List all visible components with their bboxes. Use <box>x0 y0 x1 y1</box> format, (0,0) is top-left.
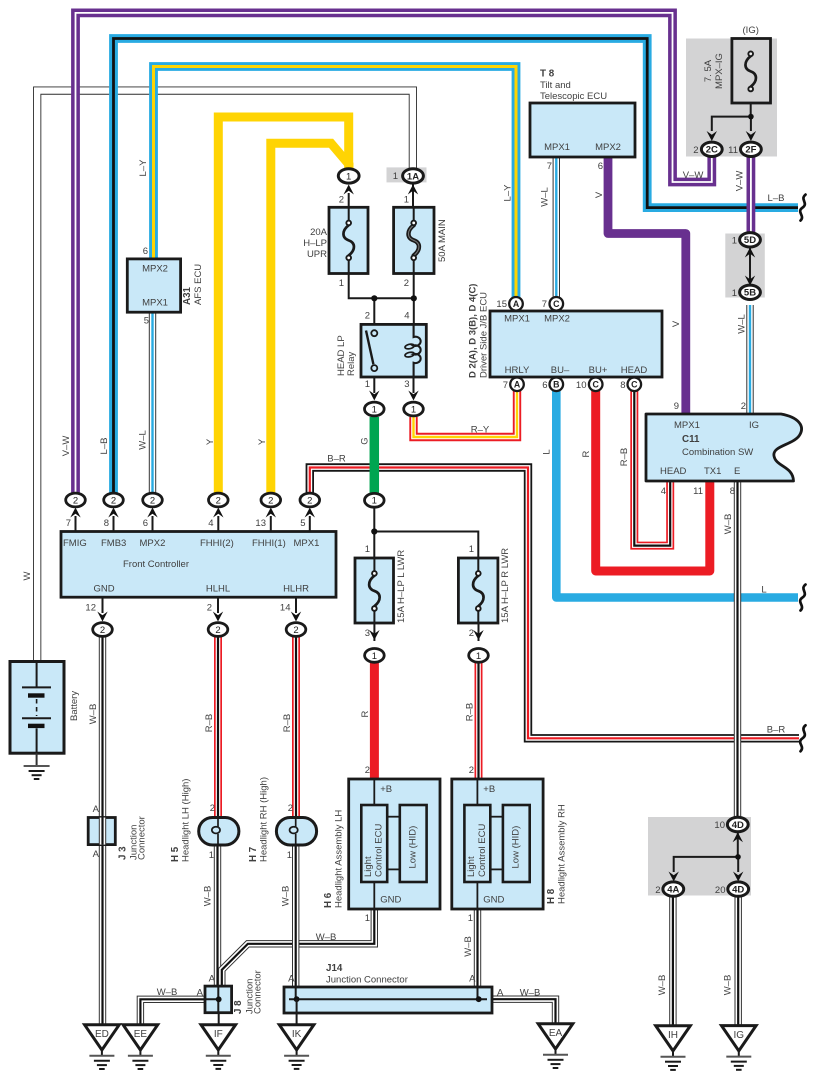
svg-text:11: 11 <box>693 486 703 497</box>
svg-text:Junction Connector: Junction Connector <box>326 975 408 986</box>
junction dot relay feed right <box>411 295 417 301</box>
svg-text:FMB3: FMB3 <box>101 538 126 549</box>
svg-text:6: 6 <box>598 161 603 172</box>
svg-text:HLHL: HLHL <box>206 584 230 595</box>
svg-text:6: 6 <box>143 518 148 529</box>
svg-text:1: 1 <box>372 651 377 662</box>
svg-text:Battery: Battery <box>69 691 80 721</box>
break symbol L <box>800 585 805 611</box>
relay switch contact top <box>371 330 377 336</box>
headlight H5 bulb <box>199 817 239 845</box>
battery ground wire <box>36 753 38 766</box>
svg-text:2: 2 <box>404 278 409 289</box>
svg-text:A: A <box>514 380 521 390</box>
svg-text:4A: 4A <box>667 885 679 896</box>
svg-text:B–R: B–R <box>327 454 346 465</box>
junction dot MPX-IG branch <box>748 114 754 120</box>
svg-text:IK: IK <box>292 1029 302 1040</box>
svg-text:J 3: J 3 <box>118 846 129 860</box>
svg-text:2: 2 <box>111 495 116 506</box>
svg-text:L–B: L–B <box>99 438 110 455</box>
svg-text:W: W <box>22 571 33 580</box>
svg-text:8: 8 <box>730 486 735 497</box>
wire branch to 4A <box>674 857 738 872</box>
svg-text:W–B: W–B <box>203 886 214 907</box>
J/B top pin circle 7 C <box>550 297 564 311</box>
front controller top pin 7 connector <box>75 516 77 532</box>
ground IH <box>656 1026 691 1051</box>
break symbol L-B <box>800 195 805 221</box>
svg-text:A31: A31 <box>182 286 193 305</box>
MPX-IG fuse element <box>745 56 756 87</box>
junction dot 15A fuse feed <box>371 528 377 534</box>
connector 5B <box>745 276 755 286</box>
wire Y FHHI(1) joining 20A fuse feed <box>271 143 349 494</box>
svg-text:1: 1 <box>365 544 370 555</box>
svg-text:L–B: L–B <box>768 193 785 204</box>
15A H-LP R LWR fuse box <box>458 558 498 623</box>
20A H-LP UPR fuse box <box>329 207 368 273</box>
svg-text:14: 14 <box>280 603 291 614</box>
wire branch to 2C <box>712 117 751 131</box>
svg-text:Relay: Relay <box>346 351 357 376</box>
svg-text:15A H–LP R LWR: 15A H–LP R LWR <box>500 548 511 623</box>
svg-text:MPX–IG: MPX–IG <box>714 53 725 89</box>
svg-text:Y: Y <box>257 438 268 445</box>
wire junction to relay pin4 <box>413 298 415 325</box>
svg-text:Light: Light <box>363 856 374 877</box>
wire W-B headlight H5 to J8 <box>214 845 221 987</box>
svg-text:AFS ECU: AFS ECU <box>193 264 204 305</box>
svg-text:4D: 4D <box>732 885 744 896</box>
svg-text:W–L: W–L <box>737 314 748 334</box>
svg-text:+B: +B <box>380 784 392 795</box>
svg-text:W–B: W–B <box>723 514 734 535</box>
svg-text:W–B: W–B <box>316 932 337 943</box>
ground IF <box>201 1025 236 1050</box>
svg-text:HEAD: HEAD <box>660 466 687 477</box>
svg-text:V: V <box>594 191 605 198</box>
wire L-B FMB3 to right break <box>114 39 799 494</box>
ground IK <box>279 1025 314 1050</box>
connector 1A shading <box>387 167 427 182</box>
svg-text:1: 1 <box>346 171 351 182</box>
ground EA <box>538 1024 573 1049</box>
svg-text:A: A <box>93 849 100 860</box>
front controller top pin 5 connector <box>309 516 311 532</box>
svg-text:A: A <box>197 988 204 999</box>
wire W-L AFS ECU MPX1 to Front Controller MPX2 <box>149 312 156 494</box>
wire G connector to 15A fuse junction <box>374 506 478 558</box>
wire W-B J8 to ground EE <box>140 999 205 1025</box>
svg-text:10: 10 <box>714 820 725 831</box>
svg-text:5D: 5D <box>744 235 756 246</box>
svg-text:1: 1 <box>365 913 370 924</box>
break symbol B-R <box>800 725 805 751</box>
front controller top pin 8 connector <box>113 516 115 532</box>
wire R-Y head relay pin3 to J/B HRLY <box>414 391 518 437</box>
svg-text:MPX2: MPX2 <box>140 538 166 549</box>
wire W-B J14 to ground EA <box>492 999 556 1024</box>
wire B-R Front Controller MPX1 to right break <box>310 468 799 739</box>
svg-text:Telescopic ECU: Telescopic ECU <box>540 91 607 102</box>
svg-text:A: A <box>497 988 504 999</box>
wire L J/B BU- to right break <box>556 391 798 598</box>
svg-text:Connector: Connector <box>137 816 148 860</box>
svg-text:10: 10 <box>576 380 587 391</box>
svg-text:20: 20 <box>715 885 726 896</box>
wire R-B HLHL to headlight H5 <box>214 636 222 817</box>
svg-text:A: A <box>93 804 100 815</box>
svg-text:2: 2 <box>693 145 698 156</box>
svg-text:1: 1 <box>476 651 481 662</box>
wire R 15A fuse L to H6 +B <box>370 662 379 779</box>
svg-text:W–B: W–B <box>88 704 99 725</box>
connector 1 below relay pin1 <box>369 391 379 401</box>
svg-text:1: 1 <box>372 404 377 415</box>
wire V-W connector 2F to 5D <box>747 155 756 234</box>
J8 junction connector box <box>205 986 232 1013</box>
svg-text:7: 7 <box>547 161 552 172</box>
svg-text:Front Controller: Front Controller <box>123 559 189 570</box>
svg-text:L–Y: L–Y <box>503 184 514 202</box>
T8 tilt telescopic ECU box <box>530 103 635 157</box>
svg-text:UPR: UPR <box>307 249 327 260</box>
svg-text:HEAD: HEAD <box>621 365 648 376</box>
svg-text:A: A <box>513 299 520 309</box>
svg-text:FHHI(1): FHHI(1) <box>252 538 286 549</box>
wire L-Y AFS ECU MPX2 to J/B pin 15A <box>154 67 517 299</box>
battery internals <box>36 662 38 688</box>
svg-text:A: A <box>469 974 476 985</box>
svg-text:V–W: V–W <box>683 170 704 181</box>
svg-text:Low (HID): Low (HID) <box>408 826 419 869</box>
wire W-B Combination SW E to connector 4D <box>734 481 741 818</box>
connector 5D-5B shading <box>725 234 765 298</box>
svg-text:R–B: R–B <box>204 714 215 732</box>
svg-text:W–B: W–B <box>723 975 734 996</box>
headlight H7 bulb <box>276 817 316 845</box>
J8 to IF wire <box>218 1013 220 1025</box>
svg-text:2: 2 <box>150 495 155 506</box>
svg-text:IG: IG <box>734 1030 745 1041</box>
svg-text:BU+: BU+ <box>589 365 608 376</box>
svg-text:Light: Light <box>466 856 477 877</box>
svg-text:H 5: H 5 <box>170 846 181 862</box>
svg-text:MPX2: MPX2 <box>595 142 621 153</box>
svg-text:H 7: H 7 <box>248 846 259 862</box>
svg-text:2: 2 <box>268 495 273 506</box>
H8 headlight assembly RH <box>452 779 543 909</box>
svg-text:V–W: V–W <box>61 436 72 457</box>
svg-text:V: V <box>671 320 682 327</box>
front controller top pin 4 connector <box>217 516 219 532</box>
svg-text:2: 2 <box>741 401 746 412</box>
wire W-B headlight H7 to J14 <box>292 845 299 987</box>
svg-text:15: 15 <box>496 299 507 310</box>
svg-text:GND: GND <box>380 895 401 906</box>
svg-text:Driver Side J/B ECU: Driver Side J/B ECU <box>479 292 490 378</box>
svg-text:2F: 2F <box>745 145 756 156</box>
svg-text:7. 5A: 7. 5A <box>703 59 714 82</box>
connector 1 below 15A R <box>473 630 483 640</box>
relay switch contact bottom <box>371 365 377 371</box>
front controller bottom pin 2 connector <box>217 597 219 613</box>
svg-text:L–Y: L–Y <box>138 159 149 177</box>
svg-text:4: 4 <box>404 311 409 322</box>
svg-text:R–B: R–B <box>619 448 630 466</box>
svg-text:L: L <box>542 449 553 454</box>
wire branch to 4D pin20 <box>737 857 739 872</box>
wire V T8 MPX2 to Combination SW MPX1 <box>608 156 686 414</box>
svg-text:9: 9 <box>674 401 679 412</box>
J14 internals <box>289 998 487 1000</box>
connector 4D pin20 <box>733 872 743 882</box>
svg-text:2: 2 <box>215 625 220 636</box>
svg-text:R–B: R–B <box>465 703 476 721</box>
wire 1A to 50A MAIN fuse <box>412 182 414 208</box>
connector block shading MPX-IG fuse area <box>686 39 777 157</box>
wire 4D to branch dot <box>737 832 739 857</box>
svg-text:1: 1 <box>287 850 292 861</box>
svg-text:1: 1 <box>393 171 398 182</box>
wire W-B Front Controller GND to ground ED <box>99 636 106 1024</box>
svg-text:1: 1 <box>339 278 344 289</box>
svg-text:2: 2 <box>365 311 370 322</box>
svg-text:V–W: V–W <box>735 171 746 192</box>
svg-text:FHHI(2): FHHI(2) <box>200 538 234 549</box>
svg-text:Y: Y <box>205 438 216 445</box>
junction dot relay feed left <box>371 295 377 301</box>
svg-text:2: 2 <box>216 495 221 506</box>
svg-text:2: 2 <box>469 765 474 776</box>
J/B bottom pin circles <box>510 378 524 392</box>
svg-text:J 8: J 8 <box>233 1000 244 1014</box>
wire R J/B BU+ to Combination SW TX1 <box>596 391 710 571</box>
svg-text:1: 1 <box>732 288 737 299</box>
svg-text:Headlight RH (High): Headlight RH (High) <box>259 777 270 862</box>
svg-text:H–LP: H–LP <box>303 238 327 249</box>
svg-text:2: 2 <box>73 495 78 506</box>
svg-text:2C: 2C <box>706 145 718 156</box>
svg-text:1: 1 <box>469 544 474 555</box>
wire R-B HLHR to headlight H7 <box>292 636 300 817</box>
svg-text:G: G <box>360 437 371 444</box>
driver side J/B ECU box <box>490 311 662 377</box>
wire 20A fuse feed <box>348 193 350 208</box>
wire W battery to 50A MAIN fuse <box>37 91 413 662</box>
svg-text:MPX1: MPX1 <box>294 538 320 549</box>
svg-text:7: 7 <box>542 299 547 310</box>
wire branch to 2F <box>750 117 752 131</box>
connector 1 below 15A L <box>369 630 379 640</box>
svg-text:50A MAIN: 50A MAIN <box>437 219 448 262</box>
svg-text:W–L: W–L <box>540 187 551 207</box>
J14 junction connector box <box>284 987 492 1013</box>
svg-text:Connector: Connector <box>253 970 264 1014</box>
wire MPX-IG fuse to branch dot <box>750 91 752 117</box>
svg-text:D 2(A), D 3(B), D 4(C): D 2(A), D 3(B), D 4(C) <box>468 284 479 378</box>
svg-text:H 8: H 8 <box>546 888 557 904</box>
battery ground symbol <box>24 765 50 767</box>
svg-text:8: 8 <box>620 380 625 391</box>
svg-text:8: 8 <box>104 518 109 529</box>
svg-text:MPX1: MPX1 <box>504 314 530 325</box>
svg-text:EA: EA <box>549 1028 563 1039</box>
wire Y FHHI(2) to 20A fuse <box>218 117 348 494</box>
svg-text:R–B: R–B <box>282 714 293 732</box>
svg-text:MPX1: MPX1 <box>142 298 168 309</box>
svg-text:R–Y: R–Y <box>471 425 490 436</box>
wire 20A fuse pin1 to relay junction <box>349 273 414 299</box>
svg-text:1: 1 <box>404 195 409 206</box>
svg-text:FMIG: FMIG <box>63 538 87 549</box>
svg-text:C: C <box>553 299 560 309</box>
connector 1 above 20A fuse <box>344 185 354 195</box>
svg-text:T 8: T 8 <box>540 69 555 80</box>
svg-text:Headlight LH (High): Headlight LH (High) <box>181 779 192 862</box>
svg-text:20A: 20A <box>310 227 328 238</box>
svg-text:C: C <box>593 380 600 390</box>
svg-text:GND: GND <box>483 895 504 906</box>
J14 to IK wire <box>296 999 298 1025</box>
svg-text:MPX1: MPX1 <box>544 142 570 153</box>
svg-text:2: 2 <box>293 625 298 636</box>
svg-text:4D: 4D <box>732 820 744 831</box>
svg-text:3: 3 <box>365 628 370 639</box>
svg-text:HRLY: HRLY <box>505 365 530 376</box>
battery box <box>10 662 64 754</box>
A31 AFS ECU box <box>127 259 180 312</box>
svg-text:MPX2: MPX2 <box>142 264 168 275</box>
svg-text:6: 6 <box>542 380 547 391</box>
svg-text:2: 2 <box>207 603 212 614</box>
wire 15A R fuse pin2 stub <box>478 622 480 641</box>
svg-text:13: 13 <box>255 518 266 529</box>
svg-text:EE: EE <box>134 1029 148 1040</box>
svg-text:11: 11 <box>728 145 738 156</box>
svg-text:2: 2 <box>655 885 660 896</box>
relay switch blade <box>366 331 373 365</box>
svg-text:1A: 1A <box>407 171 419 182</box>
ground IG <box>722 1026 757 1051</box>
ground ED <box>85 1025 120 1050</box>
wire 15A L fuse pin3 stub <box>373 622 375 641</box>
svg-text:J14: J14 <box>326 963 343 974</box>
wire R-B 15A fuse R to H8 +B <box>475 662 483 779</box>
head lp relay box <box>361 324 426 377</box>
svg-text:12: 12 <box>85 603 96 614</box>
svg-text:W–B: W–B <box>657 975 668 996</box>
J8 internals <box>205 986 219 1013</box>
svg-text:E: E <box>734 466 740 477</box>
J3 wire through <box>99 818 106 845</box>
svg-text:L: L <box>761 585 766 596</box>
20A fuse element <box>348 207 350 221</box>
svg-text:1: 1 <box>732 236 737 247</box>
svg-text:5: 5 <box>144 316 149 327</box>
connector 5D <box>740 233 761 247</box>
svg-text:W–L: W–L <box>138 430 149 450</box>
svg-text:W–B: W–B <box>281 886 292 907</box>
svg-text:1: 1 <box>365 379 370 390</box>
front controller bottom pin 14 connector <box>295 597 297 613</box>
svg-text:HLHR: HLHR <box>283 584 309 595</box>
svg-text:MPX1: MPX1 <box>674 420 700 431</box>
svg-text:R: R <box>581 450 592 457</box>
svg-text:IG: IG <box>749 420 759 431</box>
svg-text:1: 1 <box>468 913 473 924</box>
svg-text:BU–: BU– <box>551 365 570 376</box>
svg-text:B: B <box>553 380 559 390</box>
svg-text:Tilt and: Tilt and <box>540 80 571 91</box>
svg-text:2: 2 <box>307 495 312 506</box>
svg-text:2: 2 <box>339 195 344 206</box>
wire G head relay pin1 to connector <box>370 417 380 494</box>
svg-text:MPX2: MPX2 <box>544 314 570 325</box>
H6 headlight assembly LH <box>349 779 440 909</box>
svg-text:W–B: W–B <box>520 988 541 999</box>
connector 4D pin10 <box>727 817 748 831</box>
relay coil <box>414 324 421 377</box>
svg-text:2: 2 <box>469 628 474 639</box>
svg-text:A: A <box>288 974 295 985</box>
svg-text:C: C <box>631 380 638 390</box>
svg-text:Headlight Assembly LH: Headlight Assembly LH <box>334 810 345 908</box>
svg-text:4: 4 <box>661 486 666 497</box>
svg-text:R: R <box>360 710 371 717</box>
front controller box <box>61 532 336 598</box>
svg-text:5: 5 <box>300 518 305 529</box>
15A H-LP L LWR fuse box <box>355 558 394 623</box>
J/B top pin circle 15 A <box>509 297 523 311</box>
svg-text:C11: C11 <box>682 434 700 445</box>
svg-text:Control ECU: Control ECU <box>477 824 488 877</box>
wire W-B connector 4A to ground IH <box>669 896 676 1026</box>
connector 1 below relay pin3 <box>408 391 418 401</box>
svg-text:2: 2 <box>365 765 370 776</box>
J3 junction connector box <box>88 818 115 845</box>
front controller top pin 6 connector <box>152 516 154 532</box>
wire relay pin1 stub <box>373 376 375 393</box>
svg-text:IF: IF <box>214 1029 223 1040</box>
svg-text:3: 3 <box>404 379 409 390</box>
wire W-B connector 4D to ground IG <box>735 896 742 1026</box>
svg-text:6: 6 <box>143 246 148 257</box>
front controller bottom pin 12 connector <box>102 597 104 613</box>
svg-text:Low (HID): Low (HID) <box>511 826 522 869</box>
svg-text:H 6: H 6 <box>323 892 334 908</box>
connector 1 below G wire <box>369 496 379 506</box>
svg-text:GND: GND <box>93 584 114 595</box>
front controller top pin 13 connector <box>270 516 272 532</box>
svg-text:(IG): (IG) <box>743 25 759 36</box>
wire relay pin3 stub <box>413 376 415 393</box>
svg-text:5B: 5B <box>744 288 756 299</box>
ground EE <box>123 1025 158 1050</box>
svg-text:1: 1 <box>411 404 416 415</box>
svg-text:W–B: W–B <box>463 936 474 957</box>
svg-text:Headlight Assembly RH: Headlight Assembly RH <box>557 804 568 904</box>
svg-text:7: 7 <box>503 380 508 391</box>
svg-text:15A H–LP L LWR: 15A H–LP L LWR <box>396 550 407 623</box>
svg-text:Combination SW: Combination SW <box>682 447 753 458</box>
svg-text:ED: ED <box>95 1029 109 1040</box>
connector 1A above 50A fuse <box>408 185 418 195</box>
combination switch C11 box <box>646 414 802 481</box>
50A fuse element <box>413 207 415 221</box>
wire 5D to 5B link <box>749 246 751 286</box>
